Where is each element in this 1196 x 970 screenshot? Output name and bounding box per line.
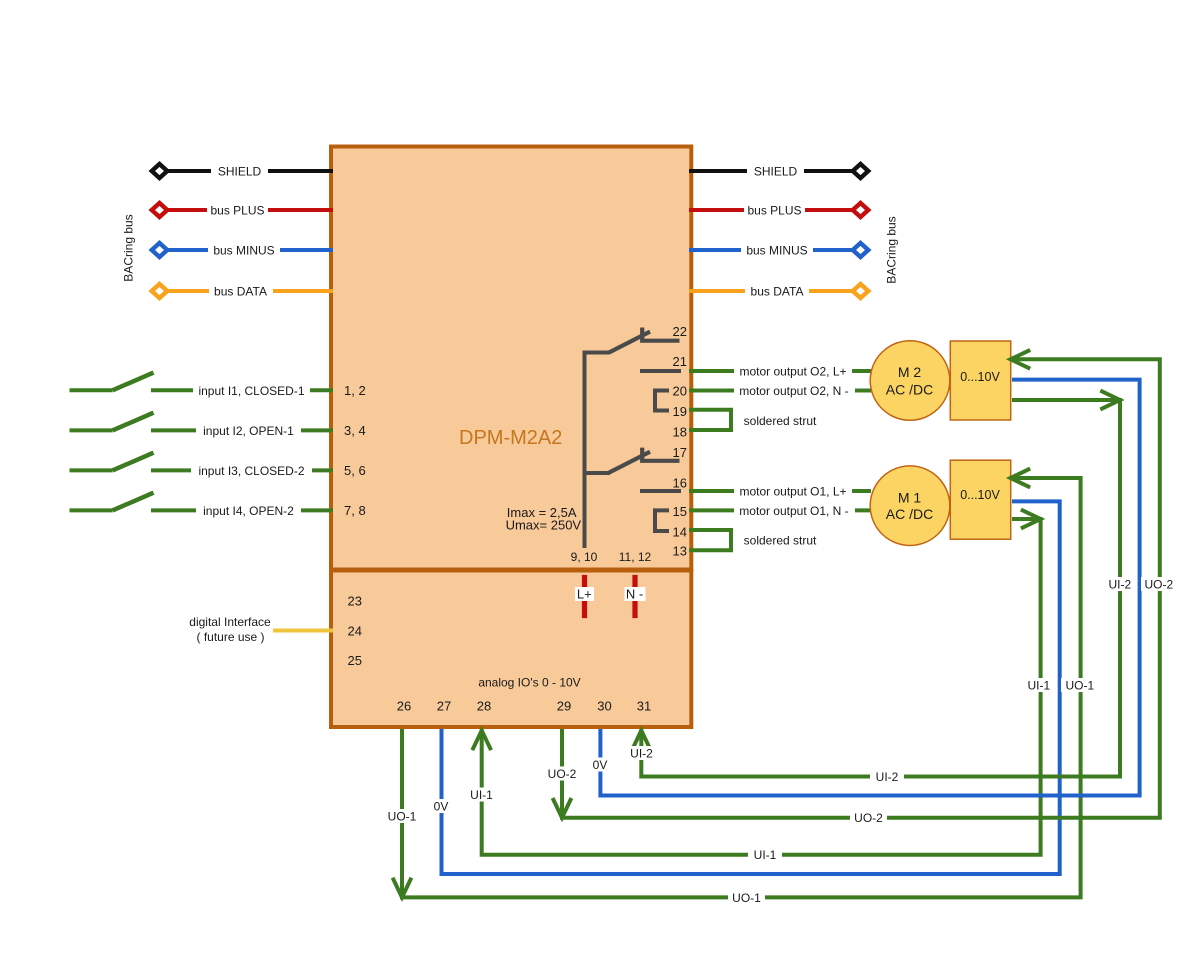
svg-text:UO-2: UO-2 [1144, 578, 1173, 592]
wire UI-2 (M2 box to pin 31) [641, 400, 1120, 777]
input I3 wire to module [151, 468, 333, 472]
svg-text:UO-2: UO-2 [548, 767, 577, 781]
svg-text:bus DATA: bus DATA [751, 285, 804, 299]
svg-text:motor output O2, N -: motor output O2, N - [739, 384, 848, 398]
svg-text:27: 27 [437, 699, 451, 714]
svg-text:N -: N - [626, 587, 643, 602]
net label UI-2 near pin 31 [625, 746, 658, 760]
net label UI-2 on horizontal run [870, 770, 904, 784]
net label UI-1 on horizontal run [748, 848, 782, 862]
svg-text:16: 16 [673, 476, 687, 491]
svg-text:UI-2: UI-2 [1108, 578, 1131, 592]
pin 22 contact line with upturned end [642, 328, 679, 341]
svg-text:( future use ): ( future use ) [196, 630, 264, 644]
svg-text:UO-2: UO-2 [854, 811, 883, 825]
svg-text:soldered strut: soldered strut [744, 414, 817, 428]
svg-text:UO-1: UO-1 [732, 891, 761, 905]
arrow UI-1 up into pin 28 [472, 731, 491, 751]
svg-text:1, 2: 1, 2 [344, 383, 366, 398]
svg-text:input I2, OPEN-1: input I2, OPEN-1 [203, 424, 294, 438]
net label UO-1 on right vertical [1061, 678, 1098, 692]
svg-text:7, 8: 7, 8 [344, 503, 366, 518]
switch S1 arm [113, 373, 154, 391]
motor M2 circle [870, 341, 950, 421]
svg-text:28: 28 [477, 699, 491, 714]
svg-text:3, 4: 3, 4 [344, 423, 366, 438]
pin 16 contact line [640, 489, 681, 493]
wire digital interface (yellow) [273, 629, 333, 633]
input I4 wire left segment [70, 508, 113, 512]
net label UO-2 on right vertical [1141, 577, 1178, 591]
motor M1 circle [870, 466, 950, 546]
svg-text:5, 6: 5, 6 [344, 463, 366, 478]
wire bus PLUS right [689, 208, 859, 212]
svg-text:bus MINUS: bus MINUS [213, 244, 274, 258]
svg-text:24: 24 [348, 623, 362, 638]
DPM-M2A2 main module body (upper section) [331, 147, 691, 570]
bus connector diamond bus PLUS left [152, 203, 168, 217]
soldered strut pins 19-18 [689, 410, 731, 430]
input I2 wire to module [151, 428, 333, 432]
power mark L+ (pins 9,10) [582, 575, 587, 618]
wire bus MINUS left [161, 248, 333, 252]
svg-text:SHIELD: SHIELD [218, 165, 262, 179]
svg-text:motor output O1, L+: motor output O1, L+ [739, 485, 846, 499]
relay contact K2 arm [609, 452, 651, 473]
svg-text:13: 13 [673, 543, 687, 558]
svg-text:DPM-M2A2: DPM-M2A2 [459, 427, 562, 449]
svg-text:soldered strut: soldered strut [744, 534, 817, 548]
svg-text:SHIELD: SHIELD [754, 165, 798, 179]
transformer box 0...10V (M1) [950, 460, 1010, 539]
input I2 wire left segment [70, 428, 113, 432]
svg-text:15: 15 [673, 504, 687, 519]
svg-text:bus DATA: bus DATA [214, 285, 267, 299]
input I3 wire left segment [70, 468, 113, 472]
relay contact K1 arm [609, 332, 651, 353]
svg-text:UI-2: UI-2 [630, 747, 653, 761]
svg-text:Umax= 250V: Umax= 250V [506, 518, 582, 533]
switch S4 arm [113, 493, 154, 511]
svg-text:input I3, CLOSED-2: input I3, CLOSED-2 [198, 464, 304, 478]
svg-text:9, 10: 9, 10 [571, 550, 598, 564]
arrow UI-1 right [1021, 510, 1041, 529]
input I4 wire to module [151, 508, 333, 512]
wire SHIELD left [161, 169, 333, 173]
svg-text:19: 19 [673, 404, 687, 419]
svg-text:BACring bus: BACring bus [885, 216, 899, 283]
arrow UI-2 up into pin 31 [632, 731, 651, 751]
svg-text:motor output O1, N -: motor output O1, N - [739, 504, 848, 518]
svg-text:UI-1: UI-1 [754, 848, 777, 862]
bus connector diamond bus PLUS right [853, 203, 869, 217]
svg-text:AC /DC: AC /DC [886, 382, 933, 398]
svg-text:22: 22 [673, 324, 687, 339]
net label UI-2 on right vertical [1103, 577, 1137, 591]
input I1 wire to module [151, 388, 333, 392]
arrow UO-1 into M1 box [1011, 469, 1031, 488]
net label 0V near pin 30 [589, 758, 611, 772]
wire bus DATA left [161, 289, 333, 293]
svg-text:UI-2: UI-2 [876, 770, 899, 784]
wire bus PLUS left [161, 208, 333, 212]
svg-text:input I4, OPEN-2: input I4, OPEN-2 [203, 504, 294, 518]
net label UO-2 near pin 29 [544, 767, 580, 781]
svg-text:bus PLUS: bus PLUS [210, 204, 264, 218]
svg-text:M 1: M 1 [898, 490, 922, 506]
bus connector diamond bus DATA right [853, 284, 869, 298]
wire 0V M2 (pin 30) [600, 380, 1139, 796]
svg-text:0...10V: 0...10V [960, 370, 1000, 384]
svg-text:UO-1: UO-1 [388, 810, 417, 824]
arrow UO-1 down [393, 878, 412, 898]
svg-text:input I1, CLOSED-1: input I1, CLOSED-1 [198, 384, 304, 398]
svg-text:26: 26 [397, 699, 411, 714]
svg-text:17: 17 [673, 445, 687, 460]
bracket contact pins 20-19 [655, 391, 669, 411]
wire motor output O2, L+ [689, 369, 871, 373]
net label UI-1 near pin 28 [465, 788, 498, 802]
svg-text:bus MINUS: bus MINUS [746, 244, 807, 258]
input I1 wire left segment [70, 388, 113, 392]
svg-text:20: 20 [673, 383, 687, 398]
bus connector diamond bus MINUS left [152, 243, 168, 257]
svg-text:11, 12: 11, 12 [619, 550, 652, 564]
wire bus MINUS right [689, 248, 859, 252]
relay common wire (pins 9,10) [585, 353, 611, 549]
bus connector diamond SHIELD left [152, 164, 168, 178]
pin 17 contact line with upturned end [642, 448, 679, 461]
net label UO-1 on horizontal run [728, 890, 765, 904]
bus connector diamond bus MINUS right [853, 243, 869, 257]
svg-text:M 2: M 2 [898, 364, 922, 380]
svg-text:31: 31 [637, 699, 651, 714]
wire UI-1 (M1 box to pin 28) [482, 519, 1041, 855]
arrow UO-2 into M2 box [1011, 350, 1031, 369]
svg-text:0...10V: 0...10V [960, 488, 1000, 502]
svg-text:UO-1: UO-1 [1065, 679, 1094, 693]
bus connector diamond SHIELD right [853, 164, 869, 178]
bracket contact pins 15-14 [655, 510, 669, 531]
switch S3 arm [113, 453, 154, 471]
bus connector diamond bus DATA left [152, 284, 168, 298]
svg-text:23: 23 [348, 593, 362, 608]
arrow UI-2 right [1100, 391, 1120, 410]
svg-text:digital Interface: digital Interface [189, 615, 271, 629]
net label UO-2 on horizontal run [850, 811, 887, 825]
svg-text:29: 29 [557, 699, 571, 714]
wire UO-2 (pin 29 to M2 box) [562, 359, 1160, 817]
net label UI-1 on right vertical [1022, 678, 1056, 692]
svg-text:UI-1: UI-1 [1027, 679, 1050, 693]
switch S2 arm [113, 413, 154, 431]
net label UO-1 near pin 26 [384, 809, 420, 823]
wire motor output O1, L+ [689, 489, 871, 493]
net label 0V near pin 27 [430, 799, 452, 813]
svg-text:14: 14 [673, 525, 687, 540]
svg-text:18: 18 [673, 425, 687, 440]
soldered strut pins 14-13 [689, 530, 731, 550]
arrow UO-2 down [553, 798, 572, 818]
transformer box 0...10V (M2) [950, 341, 1010, 420]
svg-text:AC /DC: AC /DC [886, 506, 933, 522]
svg-text:0V: 0V [434, 800, 449, 814]
svg-text:30: 30 [597, 699, 611, 714]
svg-text:L+: L+ [577, 587, 592, 602]
relay contact K2 branch [585, 471, 611, 475]
power mark N - (pins 11,12) [632, 575, 637, 618]
wire SHIELD right [689, 169, 859, 173]
svg-text:0V: 0V [593, 758, 608, 772]
svg-text:UI-1: UI-1 [470, 788, 493, 802]
wire bus DATA right [689, 289, 859, 293]
svg-text:bus PLUS: bus PLUS [747, 204, 801, 218]
svg-text:21: 21 [673, 354, 687, 369]
wire UO-1 (pin 26 to M1 box) [402, 478, 1081, 897]
DPM-M2A2 module lower section (terminals 23-31) [331, 571, 691, 728]
svg-text:motor output O2, L+: motor output O2, L+ [739, 365, 846, 379]
svg-text:BACring bus: BACring bus [122, 214, 136, 281]
wire motor output O2, N - [689, 389, 872, 393]
wire 0V M1 (pin 27) [442, 501, 1060, 874]
wire motor output O1, N - [689, 508, 872, 512]
svg-text:analog IO's 0 - 10V: analog IO's 0 - 10V [478, 676, 580, 690]
svg-text:25: 25 [348, 653, 362, 668]
pin 21 contact line [640, 369, 681, 373]
